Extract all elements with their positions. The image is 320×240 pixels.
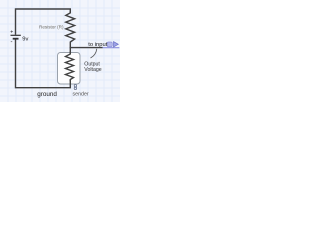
svg-text:-: - (11, 40, 13, 46)
svg-text:9v: 9v (22, 36, 28, 42)
svg-text:to input: to input (88, 42, 107, 48)
svg-text:Voltage: Voltage (84, 67, 101, 73)
svg-text:ground: ground (37, 91, 57, 98)
svg-text:Resistor (R): Resistor (R) (39, 25, 64, 30)
svg-text:sender: sender (73, 91, 89, 97)
svg-text:+: + (10, 30, 13, 36)
